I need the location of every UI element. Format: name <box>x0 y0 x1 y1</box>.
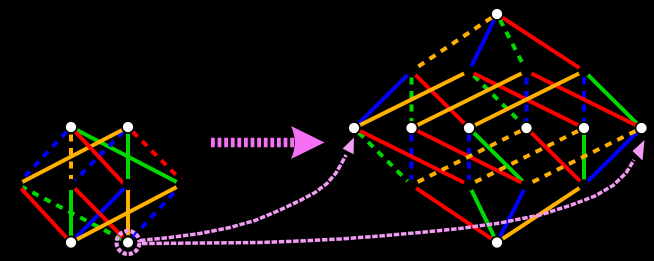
wire red TL-H3 <box>71 127 125 185</box>
wire orange M3-U4 <box>469 71 584 128</box>
hidden node L1 <box>406 179 417 190</box>
hidden node H1 <box>12 179 23 190</box>
wire orange M2-U3 <box>412 71 527 128</box>
wire blue dashed BR-H4 <box>128 185 182 243</box>
wire orange BL-H4 <box>71 185 182 243</box>
node T <box>491 8 503 20</box>
wire green L2-B <box>469 185 497 243</box>
wire red U3-M6 <box>527 71 642 128</box>
pink dashed ring around BR <box>117 231 140 254</box>
wire blue dashed TR-H2 <box>71 127 128 185</box>
wire red T-U4 <box>497 14 584 71</box>
wire blue dashed TL-H1 <box>18 127 72 185</box>
wire red U2-M5 <box>469 71 584 128</box>
node BL <box>65 237 77 249</box>
arrowhead at M6 <box>633 140 645 161</box>
node BR circled vertex <box>122 237 134 249</box>
node TL <box>65 121 77 133</box>
arrowhead at M1 <box>343 138 354 155</box>
hidden node L4 <box>578 179 589 190</box>
wire red BR-H2 <box>71 185 128 243</box>
wire orange B-L4 <box>497 185 584 243</box>
wire orange M1-U2 <box>354 71 469 128</box>
wire orange dashed TL-H2 vertical <box>69 127 73 185</box>
wire green TL-H4 <box>71 127 182 185</box>
hidden node H3 <box>122 179 133 190</box>
hidden node H4 <box>176 179 187 190</box>
hidden node U2 <box>463 65 474 76</box>
wire blue T-U2 <box>469 14 497 71</box>
node M1 <box>348 122 360 134</box>
wire green M3-L3 <box>469 128 527 185</box>
big dashed mapping arrow <box>211 126 325 159</box>
pink fiber arrow to M1 <box>140 155 346 241</box>
wire blue B-L3 <box>497 185 527 243</box>
wire blue M1-U1 <box>354 71 412 128</box>
hidden node L2 <box>463 179 474 190</box>
wire orange BR-H3 vertical <box>126 185 130 243</box>
node M6 <box>636 122 648 134</box>
node B <box>491 237 503 249</box>
wire blue M6-L4 <box>584 128 642 185</box>
hidden node L3 <box>521 179 532 190</box>
wire blue dashed U4-M5 vertical <box>582 71 586 128</box>
node M3 <box>463 122 475 134</box>
wire green TR-H3 vertical <box>126 127 130 185</box>
wire orange M5-L2 <box>469 128 584 185</box>
hidden node U1 <box>406 65 417 76</box>
node TR <box>122 121 134 133</box>
wire blue dashed M2-L1 vertical <box>410 128 414 185</box>
wire orange TR-H1 <box>18 127 129 185</box>
wire red M4-L4 <box>527 128 585 185</box>
node M4 <box>521 122 533 134</box>
wire red M2-L3 <box>412 128 527 185</box>
wire red M1-L2 <box>354 128 469 185</box>
wire green dashed U2-M4 <box>469 71 527 128</box>
wire green dashed BR-H1 <box>18 185 129 243</box>
wire orange dashed M6-L3 <box>527 128 642 185</box>
hidden node U3 <box>521 65 532 76</box>
wire blue BL-H3 <box>71 185 128 243</box>
wire green M5-L4 vertical <box>582 128 586 185</box>
wire red U1-M3 <box>412 71 470 128</box>
wire green dashed T-U3 <box>497 14 527 71</box>
wire red dashed TR-H4 <box>128 127 186 185</box>
wire green U4-M6 <box>584 71 642 128</box>
wire orange dashed M4-L1 <box>412 128 527 185</box>
hidden node U4 <box>578 65 589 76</box>
wire blue dashed U3-M4 vertical <box>525 71 529 128</box>
wire red L1-B <box>412 185 498 243</box>
wire green dashed U1-M2 vertical <box>410 71 414 128</box>
wire blue dashed M3-L2 vertical <box>467 128 471 185</box>
node M5 <box>578 122 590 134</box>
wire orange dashed T-U1 <box>412 14 498 71</box>
pink fiber arrow to M6 <box>142 160 634 244</box>
node BR white disc <box>122 236 134 248</box>
node M2 <box>406 122 418 134</box>
wire red BL-H1 <box>18 185 72 243</box>
wire green BL-H2 vertical <box>69 185 73 243</box>
wire green dashed M1-L1 <box>354 128 412 185</box>
hidden node H2 <box>65 179 76 190</box>
